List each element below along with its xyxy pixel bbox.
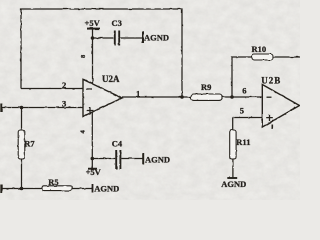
- svg-text:AGND: AGND: [145, 155, 170, 165]
- svg-text:C4: C4: [112, 139, 123, 149]
- svg-text:AGND: AGND: [221, 179, 246, 189]
- svg-text:R7: R7: [24, 139, 35, 149]
- svg-text:U2A: U2A: [102, 74, 120, 84]
- svg-text:AGND: AGND: [144, 33, 169, 43]
- svg-text:R9: R9: [201, 82, 211, 92]
- svg-text:+5V: +5V: [86, 167, 102, 177]
- svg-text:6: 6: [242, 85, 246, 95]
- svg-text:AGND: AGND: [94, 183, 119, 193]
- svg-text:5: 5: [240, 105, 244, 115]
- svg-text:U2B: U2B: [261, 76, 281, 86]
- svg-text:R11: R11: [236, 137, 250, 147]
- svg-text:+5V: +5V: [85, 18, 101, 28]
- svg-text:2: 2: [62, 80, 66, 90]
- svg-text:R5: R5: [48, 177, 58, 187]
- svg-text:R10: R10: [252, 44, 267, 54]
- svg-text:C3: C3: [112, 18, 122, 28]
- svg-text:1: 1: [136, 89, 140, 99]
- svg-text:3: 3: [62, 99, 66, 109]
